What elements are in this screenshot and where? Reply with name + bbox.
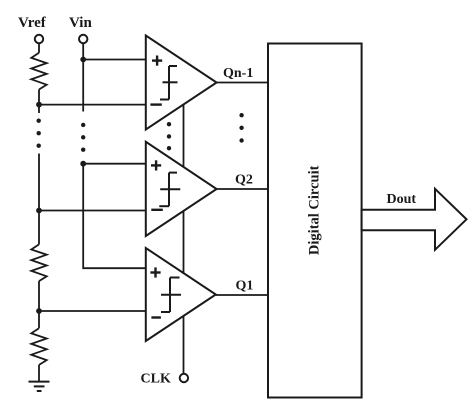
node tap1 junction <box>36 102 42 108</box>
wire node B to comparator U2 non-inverting input <box>83 163 146 165</box>
Vin line ellipsis dots <box>81 123 85 152</box>
node Q1 label <box>236 279 254 294</box>
node Q2 label <box>235 173 253 188</box>
wire tap2 to R2 <box>38 211 40 245</box>
wire CLK segment U1 to U2 <box>183 105 185 167</box>
digital circuit block label <box>307 165 323 255</box>
wire U1 output Qn-1 <box>217 82 268 84</box>
node Vref label <box>18 15 47 31</box>
node Dout label <box>387 192 417 207</box>
node tap2 junction <box>36 208 42 214</box>
wire U2 output Q2 <box>217 188 268 190</box>
resistor R3 <box>31 328 46 365</box>
svg-text:Vref: Vref <box>18 15 47 31</box>
wire R2 to tap3 <box>38 281 40 311</box>
wire Vref terminal to R1 <box>38 43 40 53</box>
wire tap1 to comparator U1 inverting input <box>39 104 146 106</box>
wire tap2 to comparator U2 inverting input <box>39 210 146 212</box>
node A junction <box>80 57 86 63</box>
resistor R2 <box>31 244 46 281</box>
comparator U2 <box>146 142 217 236</box>
terminal CLK <box>180 374 188 382</box>
node Vin label <box>69 15 92 31</box>
node CLK label <box>141 372 171 387</box>
wire R3 to ground <box>38 365 40 382</box>
resistor R1 <box>31 53 46 90</box>
wire node B down to U3 elbow <box>83 164 146 269</box>
node tap3 junction <box>36 308 42 314</box>
node Qn-1 label <box>223 66 253 81</box>
wire Vin terminal down to node A <box>82 43 84 111</box>
ground <box>29 382 50 391</box>
wire ladder continue to tap2 <box>38 154 40 211</box>
svg-text:Dout: Dout <box>387 192 417 207</box>
wire R1 to tap1 <box>38 90 40 114</box>
terminal Vin <box>79 35 87 43</box>
terminal Vref <box>35 35 43 43</box>
svg-text:Qn-1: Qn-1 <box>223 66 253 81</box>
wire U3 output Q1 <box>216 294 268 296</box>
wire tap3 to R3 <box>38 311 40 328</box>
svg-text:Digital Circuit: Digital Circuit <box>307 165 323 255</box>
wire node A to comparator U1 non-inverting input <box>83 59 146 61</box>
ellipsis between comparators <box>167 122 171 150</box>
ellipsis between output lines <box>239 113 243 143</box>
wire tap3 to comparator U3 inverting input <box>39 310 146 312</box>
svg-text:CLK: CLK <box>141 372 171 387</box>
comparator U1 <box>146 36 217 130</box>
wire CLK segment U2 to U3 <box>183 211 185 274</box>
svg-text:Q1: Q1 <box>236 279 254 294</box>
digital circuit block U4 <box>268 44 362 398</box>
node B junction <box>80 161 86 167</box>
comparator U3 <box>146 248 216 341</box>
output arrow Dout <box>362 189 467 250</box>
svg-text:Q2: Q2 <box>235 173 253 188</box>
svg-text:Vin: Vin <box>69 15 92 31</box>
wire CLK segment U3 to terminal <box>183 316 185 374</box>
ladder ellipsis dots <box>37 119 41 148</box>
